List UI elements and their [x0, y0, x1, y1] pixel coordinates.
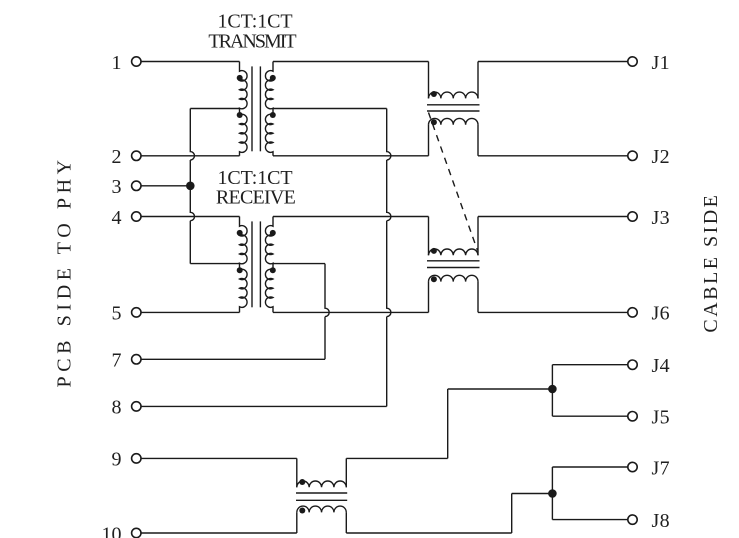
wire T2 left center tap [190, 263, 239, 265]
svg-text:1CT:1CT: 1CT:1CT [218, 11, 293, 33]
choke L3 lower winding [297, 506, 347, 512]
svg-text:7: 7 [112, 350, 122, 372]
pin 2 terminal [132, 151, 141, 160]
pin J1 terminal [628, 57, 637, 66]
pin 10 terminal [132, 528, 141, 537]
svg-text:5: 5 [112, 303, 122, 325]
choke L2 upper winding [429, 249, 479, 255]
transformer T2 primary winding [240, 217, 248, 313]
wire T2 to L2 lower [273, 311, 429, 313]
choke L1 lead top-right [477, 62, 479, 99]
wire node to J4 [552, 364, 627, 366]
choke L1 lead bottom-right [477, 125, 479, 156]
choke L2 lead bottom-left [428, 282, 430, 313]
pin J4 terminal [628, 360, 637, 369]
pin J8 terminal [628, 515, 637, 524]
wire T1 left center tap [190, 108, 239, 110]
wire J4-J5 tie [551, 365, 553, 417]
wire T2 cable tap to pin7 [325, 264, 329, 360]
wire L1 to J2 [478, 155, 628, 157]
pin 1 terminal [132, 57, 141, 66]
transformer T1 primary winding [240, 62, 248, 156]
pin J2 terminal [628, 151, 637, 160]
wire riser L3 lower [511, 494, 513, 534]
pin J6 terminal [628, 308, 637, 317]
svg-text:J7: J7 [652, 457, 671, 479]
choke L2 lead top-left [428, 217, 430, 256]
pin J7 terminal [628, 462, 637, 471]
choke L1 upper winding [429, 92, 479, 98]
svg-text:CABLE SIDE: CABLE SIDE [700, 193, 722, 333]
transformer T2 secondary winding [265, 217, 273, 313]
svg-text:J4: J4 [652, 355, 671, 377]
wire pin5 to T2 [141, 311, 240, 313]
wire pin9 to L3 [141, 457, 297, 459]
junction node J7/J8 [548, 489, 557, 498]
svg-text:J1: J1 [652, 52, 671, 74]
choke L2 core [427, 260, 480, 262]
wire L3 lower to corner [346, 532, 511, 534]
pin 4 terminal [132, 212, 141, 221]
wire pin10 to L3 [141, 532, 297, 534]
svg-text:J5: J5 [652, 407, 671, 429]
svg-text:9: 9 [112, 449, 122, 471]
svg-text:PCB SIDE TO PHY: PCB SIDE TO PHY [53, 155, 75, 387]
junction node J4/J5 [548, 385, 557, 394]
wire T1 to L1 lower [273, 155, 429, 157]
wire node to J7 [552, 466, 627, 468]
wire L3 to corner [346, 457, 447, 459]
wire L2 to J6 [478, 311, 628, 313]
choke L3 lead top-right [345, 458, 347, 487]
pin 5 terminal [132, 308, 141, 317]
choke L1 core [427, 104, 480, 106]
choke L3 upper winding [297, 481, 347, 487]
svg-text:8: 8 [112, 397, 122, 419]
wire T1 to L1 [273, 61, 429, 63]
wire L1 to J1 [478, 61, 628, 63]
wire T2 to L2 [273, 216, 429, 218]
wire pin4 to T2 [141, 216, 240, 218]
pin 3 terminal [132, 181, 141, 190]
transformer T2 receive core [251, 221, 253, 307]
choke L1 lower winding [429, 118, 479, 124]
wire L2 to J3 [478, 216, 628, 218]
choke L1 lead top-left [428, 62, 430, 99]
svg-text:2: 2 [112, 146, 122, 168]
choke L3 core [296, 492, 347, 494]
wire T2 right center tap [273, 263, 325, 265]
wire J7-J8 tie [551, 467, 553, 520]
svg-text:J8: J8 [652, 510, 671, 532]
svg-text:TRANSMIT: TRANSMIT [208, 31, 296, 53]
wire node to J5 [552, 415, 627, 417]
wire pin1 to T1 [141, 61, 240, 63]
choke L3 lead top-left [296, 458, 298, 487]
junction node pin3 center-tap [186, 182, 195, 191]
dashed core link L1-L2 [429, 113, 478, 251]
pin 8 terminal [132, 402, 141, 411]
choke L2 lower winding [429, 275, 479, 281]
transformer T1 transmit core [251, 66, 253, 151]
wire to J4/J5 node [448, 388, 553, 390]
choke L2 lead bottom-right [477, 282, 479, 313]
wire riser L3 [447, 389, 449, 458]
svg-text:1: 1 [112, 52, 122, 74]
pin J5 terminal [628, 412, 637, 421]
choke L3 lead bottom-left [296, 512, 298, 533]
wire pin2 to T1 [141, 155, 240, 157]
svg-text:4: 4 [112, 207, 122, 229]
svg-text:J2: J2 [652, 146, 671, 168]
choke L1 lead bottom-left [428, 125, 430, 156]
svg-text:J6: J6 [652, 303, 671, 325]
pin 9 terminal [132, 454, 141, 463]
svg-text:10: 10 [102, 523, 122, 538]
pin 7 terminal [132, 355, 141, 364]
wire T1 right center tap [273, 108, 387, 110]
wire node to J8 [552, 519, 627, 521]
wire to J7/J8 node [512, 493, 553, 495]
wire pin8 [141, 405, 387, 407]
svg-text:J3: J3 [652, 207, 671, 229]
wire pin7 [141, 358, 325, 360]
svg-text:RECEIVE: RECEIVE [216, 187, 296, 209]
svg-text:3: 3 [112, 176, 122, 198]
wire T1 cable tap to pin8 [387, 109, 391, 407]
transformer T1 secondary winding [265, 62, 273, 156]
wire pin3 to node [141, 185, 190, 187]
choke L3 lead bottom-right [345, 512, 347, 533]
choke L2 lead top-right [477, 217, 479, 256]
wire center-tap bus pins 2-4 [190, 109, 194, 264]
pin J3 terminal [628, 212, 637, 221]
